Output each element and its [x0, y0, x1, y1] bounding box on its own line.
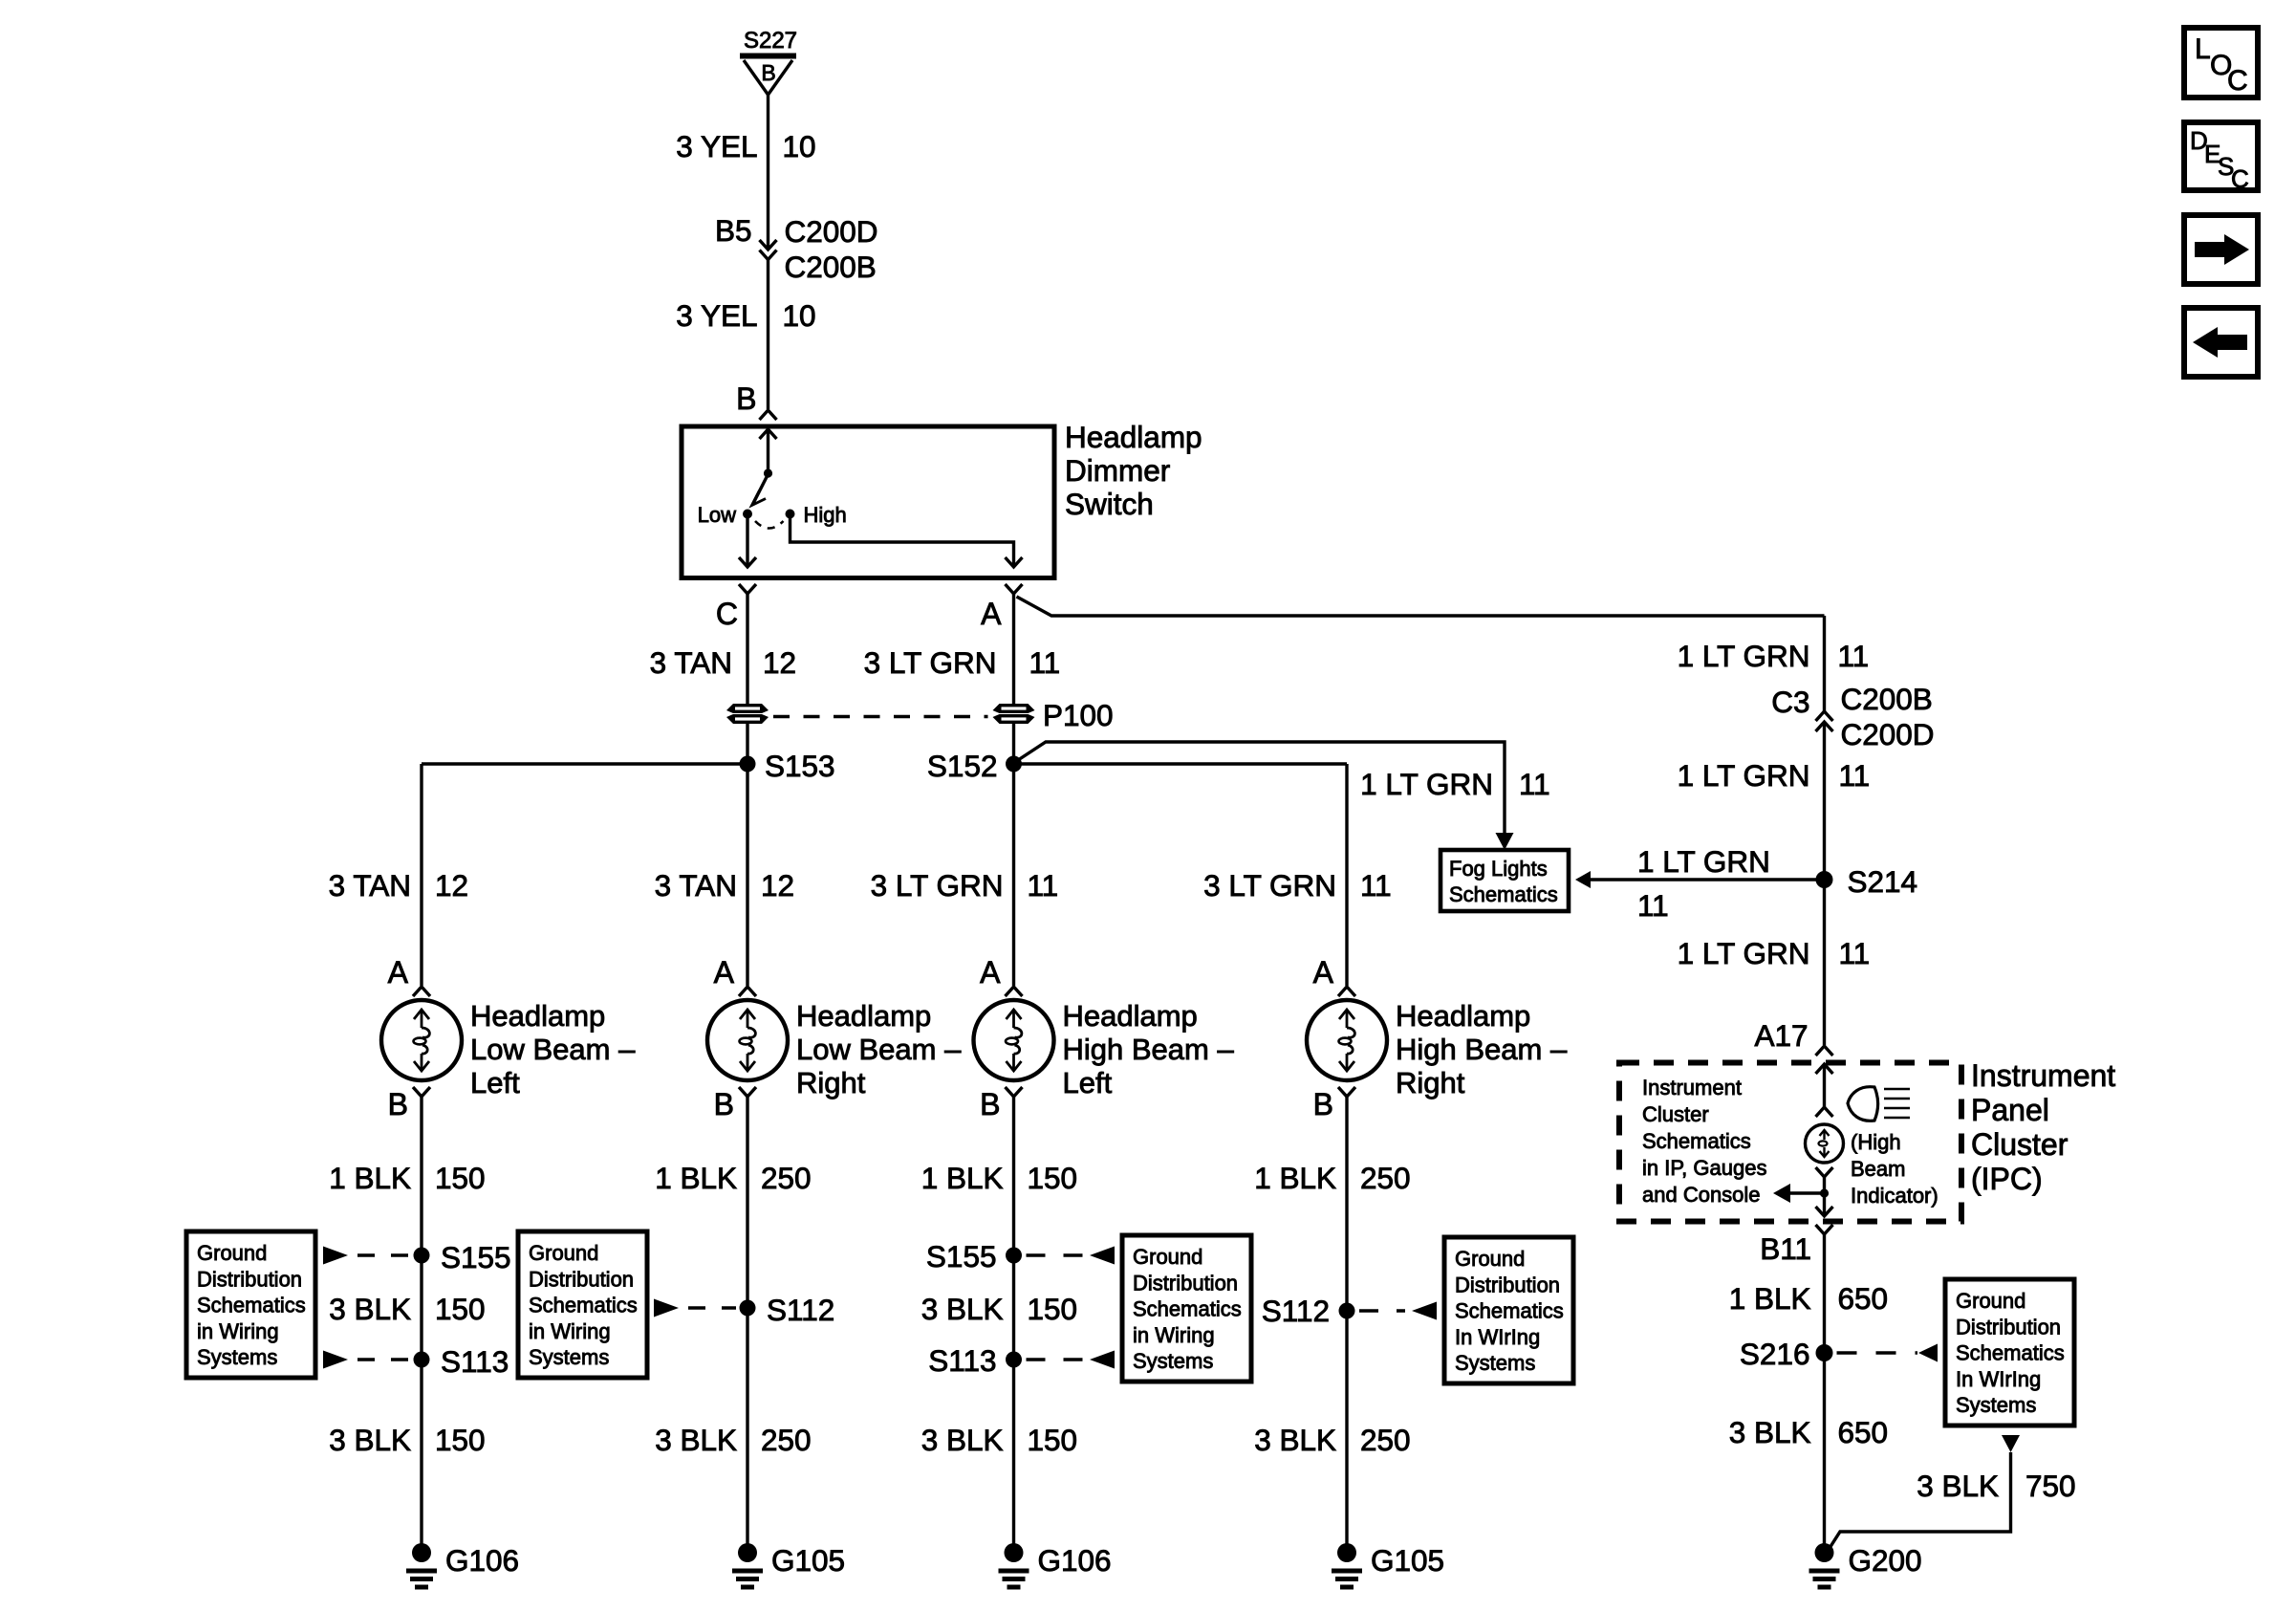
svg-text:150: 150 — [435, 1161, 486, 1195]
splice S214 — [1816, 864, 1918, 899]
wire splice S152 branch to col4 — [1014, 762, 1348, 765]
svg-text:1 LT GRN: 1 LT GRN — [1678, 936, 1810, 970]
label 1 BLK 150 col3 — [921, 1161, 1077, 1195]
splice S155 col3 — [926, 1239, 1115, 1274]
label Headlamp High Beam – Right col4 — [1396, 999, 1568, 1099]
ground distribution schematics box col2 — [518, 1231, 647, 1378]
headlamp bulb col3 — [974, 1000, 1054, 1080]
svg-text:B: B — [736, 381, 756, 416]
svg-text:S112: S112 — [1262, 1294, 1330, 1328]
label 3 LT GRN 11 col4 — [1203, 868, 1392, 903]
svg-text:Distribution: Distribution — [529, 1267, 634, 1291]
svg-text:Systems: Systems — [197, 1345, 277, 1369]
dimmer wire Low to pin C with down arrow — [739, 518, 756, 567]
svg-text:Low Beam –: Low Beam – — [796, 1033, 962, 1066]
svg-text:250: 250 — [761, 1423, 812, 1457]
ground distribution schematics box far left — [186, 1231, 315, 1378]
label High Beam Indicator — [1851, 1130, 1939, 1208]
svg-text:10: 10 — [783, 129, 816, 163]
arrowhead into fog lights box — [1496, 833, 1514, 850]
svg-text:Left: Left — [1063, 1066, 1113, 1099]
svg-text:Cluster: Cluster — [1642, 1102, 1709, 1126]
svg-text:1 BLK: 1 BLK — [329, 1161, 411, 1195]
label 1 BLK 150 col1 — [329, 1161, 485, 1195]
svg-text:1 BLK: 1 BLK — [1254, 1161, 1336, 1195]
svg-text:Ground: Ground — [1956, 1289, 2025, 1313]
wire 3 BLK 750 from ground box to G200 — [1825, 1435, 2020, 1556]
svg-text:3 BLK: 3 BLK — [1729, 1415, 1811, 1449]
label 1 BLK 250 col2 — [655, 1161, 811, 1195]
wire pin A to P100 — [1012, 594, 1015, 704]
splice S216 — [1740, 1337, 1833, 1371]
svg-text:3 BLK: 3 BLK — [921, 1292, 1004, 1326]
label 1 LT GRN 11 top right — [1678, 639, 1870, 673]
svg-text:S153: S153 — [765, 749, 835, 783]
svg-text:C200B: C200B — [785, 250, 877, 284]
splice S153 — [740, 749, 835, 783]
svg-text:3 YEL: 3 YEL — [676, 298, 757, 333]
svg-text:12: 12 — [761, 868, 794, 903]
splice S155 col1 — [323, 1240, 511, 1274]
svg-text:1 LT GRN: 1 LT GRN — [1637, 844, 1770, 879]
svg-text:G200: G200 — [1849, 1543, 1922, 1578]
ground G200 — [1809, 1543, 1922, 1587]
svg-text:A: A — [980, 955, 1001, 990]
label 3 BLK 750 — [1917, 1469, 2075, 1503]
svg-text:Headlamp: Headlamp — [1396, 999, 1530, 1033]
svg-text:S216: S216 — [1740, 1337, 1810, 1371]
svg-text:S227: S227 — [744, 28, 797, 54]
power feed splice symbol S227 — [740, 28, 797, 95]
label 11 below fog arrow — [1637, 888, 1669, 923]
svg-text:Schematics: Schematics — [1133, 1297, 1242, 1321]
nav icon LOC — [2184, 28, 2258, 98]
grommet P100 on C wire — [726, 704, 769, 724]
svg-text:S155: S155 — [926, 1239, 997, 1274]
svg-text:3 BLK: 3 BLK — [329, 1423, 411, 1457]
svg-text:(IPC): (IPC) — [1971, 1162, 2043, 1196]
svg-text:1 BLK: 1 BLK — [655, 1161, 737, 1195]
pin A lamp col4 — [1313, 955, 1355, 996]
svg-text:Dimmer: Dimmer — [1065, 453, 1170, 488]
svg-text:1 LT GRN: 1 LT GRN — [1678, 639, 1810, 673]
svg-text:3 BLK: 3 BLK — [329, 1292, 411, 1326]
svg-text:G105: G105 — [1371, 1543, 1444, 1578]
dimmer switch arm — [752, 474, 769, 506]
label 3 YEL 10 lower — [676, 298, 815, 333]
label 3 TAN 12 at pin C — [650, 645, 796, 680]
inline connector C200D/C200B pin B5 — [715, 213, 878, 284]
high beam headlamp icon — [1848, 1087, 1910, 1121]
svg-text:150: 150 — [1028, 1423, 1078, 1457]
svg-text:in Wiring: in Wiring — [529, 1319, 611, 1343]
label Low — [698, 503, 736, 527]
ground G106 col3 — [999, 1543, 1112, 1587]
svg-text:Ground: Ground — [1133, 1245, 1202, 1269]
svg-text:3 TAN: 3 TAN — [329, 868, 411, 903]
pin B lamp col3 — [980, 1087, 1022, 1121]
svg-text:3 LT GRN: 3 LT GRN — [871, 868, 1004, 903]
label 3 YEL 10 upper — [676, 129, 815, 163]
dimmer wire High to pin A with down arrow — [791, 518, 1023, 567]
svg-text:B: B — [714, 1087, 734, 1121]
svg-text:3 BLK: 3 BLK — [1254, 1423, 1336, 1457]
svg-text:B: B — [388, 1087, 408, 1121]
svg-text:1 LT GRN: 1 LT GRN — [1360, 767, 1493, 801]
svg-text:S113: S113 — [441, 1344, 509, 1379]
splice S113 col1 — [323, 1344, 509, 1379]
svg-text:G105: G105 — [771, 1543, 845, 1578]
svg-text:Distribution: Distribution — [1455, 1273, 1560, 1296]
label 3 LT GRN 11 at pin A — [864, 645, 1061, 680]
contact dot High — [786, 510, 795, 519]
label 3 BLK 150 mid col3 — [921, 1292, 1077, 1326]
label 3 BLK 650 — [1729, 1415, 1888, 1449]
svg-text:250: 250 — [761, 1161, 812, 1195]
svg-text:Distribution: Distribution — [197, 1267, 302, 1291]
svg-text:B11: B11 — [1760, 1231, 1811, 1266]
svg-text:11: 11 — [1839, 936, 1871, 970]
wire P100 to splice S153 — [746, 724, 748, 764]
pin A lamp col2 — [714, 955, 756, 996]
svg-text:Distribution: Distribution — [1133, 1271, 1238, 1295]
svg-text:A: A — [388, 955, 409, 990]
dimmer input wire with up arrow — [760, 429, 777, 473]
svg-text:Ground: Ground — [1455, 1247, 1525, 1271]
wire B11 to S216 — [1823, 1234, 1826, 1353]
dashed link between P100 grommets — [773, 715, 988, 718]
wire P100 to splice S152 — [1012, 724, 1015, 764]
svg-text:1 BLK: 1 BLK — [1729, 1281, 1811, 1316]
svg-text:Cluster: Cluster — [1971, 1127, 2069, 1162]
contact dot Low — [743, 510, 752, 519]
dashed travel arc — [755, 521, 784, 529]
svg-text:11: 11 — [1029, 645, 1061, 680]
label 1 BLK 250 col4 — [1254, 1161, 1410, 1195]
svg-text:Low Beam –: Low Beam – — [470, 1033, 636, 1066]
svg-text:250: 250 — [1360, 1423, 1411, 1457]
pin B of dimmer switch — [736, 381, 776, 420]
label Instrument Cluster Schematics in IP Gauges and Console — [1642, 1076, 1766, 1207]
svg-text:High Beam –: High Beam – — [1063, 1033, 1235, 1066]
svg-text:Switch: Switch — [1065, 487, 1154, 521]
svg-text:Systems: Systems — [1455, 1351, 1535, 1375]
splice S112 col4 — [1262, 1294, 1437, 1328]
ground G105 col4 — [1332, 1543, 1444, 1587]
instrument panel cluster dashed box — [1619, 1063, 1961, 1222]
wire S227 to connector C200D — [767, 95, 769, 248]
label 1 BLK 650 — [1729, 1281, 1888, 1316]
svg-text:C: C — [2227, 65, 2248, 97]
svg-text:C: C — [716, 597, 738, 631]
pin A lamp col1 — [388, 955, 430, 996]
svg-text:Schematics: Schematics — [529, 1294, 638, 1317]
svg-text:Right: Right — [1396, 1066, 1465, 1099]
svg-text:Headlamp: Headlamp — [470, 999, 605, 1033]
wire S152 to fog lights schematics — [1015, 742, 1505, 833]
label Headlamp Low Beam – Right col2 — [796, 999, 962, 1099]
svg-text:S152: S152 — [927, 749, 998, 783]
pin B lamp col4 — [1313, 1087, 1355, 1121]
headlamp bulb col4 — [1307, 1000, 1387, 1080]
label 3 LT GRN 11 col3 — [871, 868, 1059, 903]
svg-text:3 BLK: 3 BLK — [1917, 1469, 1999, 1503]
label 3 TAN 12 col1 — [329, 868, 468, 903]
wire lamp to ground col1 — [420, 1097, 422, 1547]
svg-text:650: 650 — [1838, 1415, 1889, 1449]
svg-text:650: 650 — [1838, 1281, 1889, 1316]
pin A of dimmer switch — [981, 584, 1022, 631]
wire S216 to ground G200 — [1823, 1353, 1826, 1547]
svg-text:C200D: C200D — [785, 214, 878, 249]
svg-text:1 BLK: 1 BLK — [921, 1161, 1004, 1195]
svg-text:3 TAN: 3 TAN — [655, 868, 737, 903]
label 3 BLK 150 bottom col1 — [329, 1423, 485, 1457]
svg-text:Systems: Systems — [1956, 1393, 2036, 1417]
arrowhead S216 ground box — [1918, 1344, 1938, 1362]
label Headlamp High Beam – Left col3 — [1063, 999, 1235, 1099]
svg-text:A: A — [714, 955, 735, 990]
svg-text:G106: G106 — [1038, 1543, 1112, 1578]
label 3 BLK 250 bottom col2 — [655, 1423, 811, 1457]
svg-text:S113: S113 — [928, 1343, 996, 1378]
label Instrument Panel Cluster IPC — [1971, 1058, 2115, 1196]
svg-text:P100: P100 — [1043, 698, 1114, 732]
svg-text:Headlamp: Headlamp — [796, 999, 931, 1033]
label High — [804, 503, 847, 527]
svg-text:A: A — [981, 597, 1002, 631]
svg-text:Right: Right — [796, 1066, 866, 1099]
dashed link S216 to ground distribution box — [1837, 1351, 1918, 1354]
label 1 LT GRN 11 fog drop — [1360, 767, 1550, 801]
grommet P100 on A wire with label — [993, 698, 1114, 732]
svg-text:S214: S214 — [1848, 864, 1918, 899]
svg-text:Instrument: Instrument — [1971, 1058, 2115, 1093]
wire S214 to IPC pin A17 — [1823, 880, 1826, 1045]
label 3 BLK 150 mid col1 — [329, 1292, 485, 1326]
IPC entry wire with up arrow — [1816, 1064, 1833, 1107]
svg-text:Schematics: Schematics — [1455, 1299, 1564, 1323]
wire C200B to dimmer pin B — [767, 260, 769, 410]
svg-text:3 LT GRN: 3 LT GRN — [1203, 868, 1336, 903]
svg-text:A17: A17 — [1754, 1018, 1808, 1053]
svg-text:In WIrIng: In WIrIng — [1455, 1325, 1540, 1349]
wire drop to lamp col4 — [1345, 764, 1348, 986]
ground distribution schematics box col3 — [1122, 1235, 1251, 1382]
svg-text:in Wiring: in Wiring — [197, 1319, 279, 1343]
svg-text:in IP, Gauges: in IP, Gauges — [1642, 1156, 1766, 1180]
IPC exit down arrow — [1816, 1207, 1833, 1216]
svg-text:(High: (High — [1851, 1130, 1901, 1154]
wire lamp to ground col2 — [746, 1097, 748, 1547]
label Headlamp Low Beam – Left col1 — [470, 999, 636, 1099]
svg-text:Headlamp: Headlamp — [1065, 420, 1202, 454]
nav icon arrow right — [2184, 215, 2258, 284]
IPC wire lamp to junction — [1823, 1177, 1826, 1216]
svg-text:Schematics: Schematics — [1956, 1341, 2065, 1365]
splice S152 — [927, 749, 1022, 783]
svg-text:250: 250 — [1360, 1161, 1411, 1195]
svg-text:Systems: Systems — [529, 1345, 609, 1369]
IPC lamp top terminal — [1816, 1107, 1833, 1117]
svg-text:11: 11 — [1839, 758, 1871, 793]
label 1 LT GRN above fog arrow — [1637, 844, 1770, 879]
label 1 LT GRN 11 above S214 — [1678, 758, 1871, 793]
svg-text:11: 11 — [1028, 868, 1059, 903]
svg-text:Left: Left — [470, 1066, 520, 1099]
svg-text:C200B: C200B — [1841, 682, 1933, 716]
pin A lamp col3 — [980, 955, 1022, 996]
svg-text:Indicator): Indicator) — [1851, 1184, 1939, 1208]
svg-text:L: L — [2195, 33, 2211, 65]
svg-text:3 BLK: 3 BLK — [921, 1423, 1004, 1457]
dimmer pivot dot — [764, 468, 772, 477]
svg-text:3 LT GRN: 3 LT GRN — [864, 645, 997, 680]
svg-text:1 LT GRN: 1 LT GRN — [1678, 758, 1810, 793]
svg-text:3 YEL: 3 YEL — [676, 129, 757, 163]
svg-text:Fog Lights: Fog Lights — [1449, 857, 1548, 881]
svg-text:3 BLK: 3 BLK — [655, 1423, 737, 1457]
svg-text:High Beam –: High Beam – — [1396, 1033, 1568, 1066]
svg-text:150: 150 — [435, 1292, 486, 1326]
headlamp dimmer switch box — [682, 426, 1054, 578]
IPC lamp bottom terminal — [1816, 1167, 1833, 1177]
pin B11 of IPC — [1760, 1225, 1832, 1266]
svg-text:Schematics: Schematics — [1449, 882, 1558, 906]
wire pin C to P100 — [746, 594, 748, 704]
headlamp bulb col2 — [707, 1000, 788, 1080]
wire drop to lamp col1 — [420, 764, 422, 986]
label 1 LT GRN 11 below S214 — [1678, 936, 1871, 970]
ground G106 col1 — [406, 1543, 519, 1587]
svg-text:High: High — [804, 503, 847, 527]
svg-text:A: A — [1313, 955, 1334, 990]
svg-text:150: 150 — [1028, 1292, 1078, 1326]
label 3 BLK 150 bottom col3 — [921, 1423, 1077, 1457]
svg-text:and Console: and Console — [1642, 1183, 1761, 1207]
wire splice S153 branch to col1 — [422, 762, 747, 765]
headlamp bulb col1 — [381, 1000, 462, 1080]
svg-text:Systems: Systems — [1133, 1349, 1213, 1373]
svg-text:B: B — [1313, 1087, 1333, 1121]
IPC arrow to and Console label — [1773, 1184, 1825, 1203]
svg-text:C3: C3 — [1771, 685, 1809, 719]
wire lamp to ground col4 — [1345, 1097, 1348, 1547]
wire drop to lamp col2 — [746, 764, 748, 986]
svg-text:11: 11 — [1637, 888, 1669, 923]
svg-text:Schematics: Schematics — [197, 1294, 306, 1317]
ground distribution schematics box col4 — [1444, 1237, 1573, 1383]
label 3 BLK 250 bottom col4 — [1254, 1423, 1410, 1457]
svg-text:150: 150 — [1028, 1161, 1078, 1195]
svg-text:S155: S155 — [441, 1240, 511, 1274]
label Headlamp Dimmer Switch — [1065, 420, 1202, 521]
svg-text:Ground: Ground — [197, 1241, 267, 1265]
svg-text:Panel: Panel — [1971, 1093, 2049, 1127]
high beam indicator lamp — [1806, 1124, 1844, 1163]
pin C of dimmer switch — [716, 584, 756, 631]
ground distribution schematics box right — [1945, 1279, 2074, 1426]
wire drop to lamp col3 — [1012, 764, 1015, 986]
svg-text:11: 11 — [1360, 868, 1392, 903]
wire C3 to S214 — [1823, 722, 1826, 880]
svg-text:10: 10 — [783, 298, 816, 333]
svg-text:C200D: C200D — [1841, 717, 1935, 751]
svg-text:In WIrIng: In WIrIng — [1956, 1367, 2041, 1391]
svg-text:B: B — [761, 60, 775, 85]
svg-text:12: 12 — [763, 645, 796, 680]
inline connector C3 C200B/C200D — [1771, 682, 1934, 751]
svg-text:Headlamp: Headlamp — [1063, 999, 1198, 1033]
svg-text:B5: B5 — [715, 213, 752, 248]
svg-text:150: 150 — [435, 1423, 486, 1457]
svg-text:750: 750 — [2025, 1469, 2076, 1503]
arrow wire S214 to fog lights box — [1575, 871, 1825, 888]
svg-text:11: 11 — [1519, 767, 1550, 801]
svg-text:Beam: Beam — [1851, 1157, 1905, 1181]
fog lights schematics box — [1440, 850, 1569, 911]
wire branch pin A to right main — [1017, 597, 1825, 616]
svg-text:Distribution: Distribution — [1956, 1315, 2061, 1339]
splice S112 col2 — [654, 1293, 834, 1327]
svg-text:Schematics: Schematics — [1642, 1129, 1751, 1153]
pin B lamp col2 — [714, 1087, 756, 1121]
svg-text:in Wiring: in Wiring — [1133, 1323, 1215, 1347]
svg-text:12: 12 — [435, 868, 468, 903]
nav icon DESC — [2184, 122, 2258, 193]
svg-text:Ground: Ground — [529, 1241, 598, 1265]
svg-text:G106: G106 — [445, 1543, 519, 1578]
IPC junction dot — [1820, 1188, 1829, 1197]
wire right main to C3 connector — [1823, 616, 1826, 711]
svg-text:B: B — [980, 1087, 1000, 1121]
pin A17 of IPC — [1754, 1018, 1832, 1056]
svg-text:S112: S112 — [767, 1293, 834, 1327]
splice S113 col3 — [928, 1343, 1115, 1378]
ground G105 col2 — [732, 1543, 845, 1587]
svg-text:Low: Low — [698, 503, 736, 527]
nav icon arrow left — [2184, 308, 2258, 377]
svg-text:11: 11 — [1838, 639, 1870, 673]
svg-text:3 TAN: 3 TAN — [650, 645, 732, 680]
wire lamp to ground col3 — [1012, 1097, 1015, 1547]
label 3 TAN 12 col2 — [655, 868, 794, 903]
svg-text:C: C — [2231, 164, 2249, 193]
pin B lamp col1 — [388, 1087, 430, 1121]
svg-text:Instrument: Instrument — [1642, 1076, 1742, 1099]
